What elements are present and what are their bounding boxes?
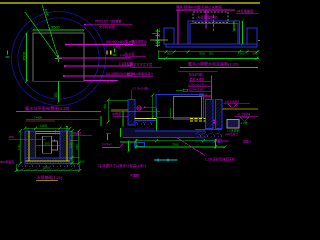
- svg-text:500: 500: [240, 52, 245, 56]
- svg-text:集水坑平面布置图(1:20): 集水坑平面布置图(1:20): [25, 105, 70, 112]
- svg-text:面层水泥浆: 面层水泥浆: [190, 77, 205, 82]
- svg-text:7.8: 7.8: [105, 81, 110, 85]
- svg-text:(C1.B+C4段): (C1.B+C4段): [132, 85, 149, 90]
- svg-text:1:2坡: 1:2坡: [241, 120, 248, 125]
- svg-text:数字文字文字层: 数字文字文字层: [130, 62, 152, 67]
- svg-text:注:本图尺寸以毫米计标高以米计: 注:本图尺寸以毫米计标高以米计: [98, 163, 147, 168]
- svg-text:埋件 预埋Φ48管,双排止水带圈: 埋件 预埋Φ48管,双排止水带圈: [176, 5, 222, 10]
- svg-text:1:2.5мJ: 1:2.5мJ: [102, 142, 112, 146]
- svg-text:1:8找: 1:8找: [113, 44, 120, 49]
- svg-text:1850: 1850: [75, 144, 79, 150]
- svg-text:预留孔: 预留孔: [73, 131, 82, 136]
- svg-text:文字层 如图: 文字层 如图: [99, 24, 115, 29]
- svg-text:500: 500: [253, 52, 258, 56]
- svg-text:详图.3: 详图.3: [243, 139, 252, 144]
- svg-text:1:2水泥砂浆抹面压实: 1:2水泥砂浆抹面压实: [205, 157, 235, 162]
- svg-text:1400: 1400: [40, 124, 47, 128]
- svg-text:水泵基础(1:20): 水泵基础(1:20): [37, 175, 63, 180]
- svg-text:详见结施图: 详见结施图: [237, 8, 254, 13]
- svg-text:1250: 1250: [17, 144, 21, 150]
- svg-text:2500: 2500: [43, 166, 50, 170]
- svg-text:3500: 3500: [51, 25, 61, 30]
- svg-text:3500: 3500: [199, 52, 206, 56]
- svg-text:Ф50: Ф50: [9, 135, 15, 139]
- svg-text:T=400: T=400: [34, 115, 42, 119]
- svg-text:(与泵配套供应): (与泵配套供应): [197, 15, 218, 20]
- svg-text:[Ф50x3(5-7)封堵管: [Ф50x3(5-7)封堵管: [95, 19, 122, 24]
- svg-text:整平小隔壁水电支座图(1:20): 整平小隔壁水电支座图(1:20): [188, 61, 239, 67]
- svg-text:-0.150M: -0.150M: [237, 113, 250, 117]
- svg-text:40厚垫: 40厚垫: [112, 111, 121, 116]
- svg-text:数字C40钢筋混凝土: 数字C40钢筋混凝土: [127, 71, 154, 76]
- svg-text:埋件详图台: 埋件详图台: [131, 39, 147, 44]
- svg-text:7500: 7500: [172, 142, 179, 146]
- svg-text:600: 600: [103, 104, 107, 109]
- svg-text:1250: 1250: [69, 142, 73, 148]
- svg-text:Ф50预留孔: Ф50预留孔: [0, 159, 15, 164]
- svg-text:预留沟750: 预留沟750: [215, 138, 229, 143]
- svg-text:200: 200: [80, 160, 85, 164]
- svg-text:C20混凝土: C20混凝土: [225, 132, 239, 136]
- svg-text:500: 500: [167, 52, 172, 56]
- svg-text:平面图: 平面图: [130, 174, 139, 178]
- svg-text:防水层(阻): 防水层(阻): [189, 72, 203, 77]
- svg-text:350: 350: [209, 52, 214, 56]
- svg-text:防水层: 防水层: [125, 52, 135, 57]
- svg-text:200: 200: [45, 142, 50, 146]
- svg-text:3500: 3500: [22, 51, 27, 61]
- svg-text:±0.002M: ±0.002M: [225, 100, 239, 104]
- svg-text:350: 350: [54, 92, 58, 98]
